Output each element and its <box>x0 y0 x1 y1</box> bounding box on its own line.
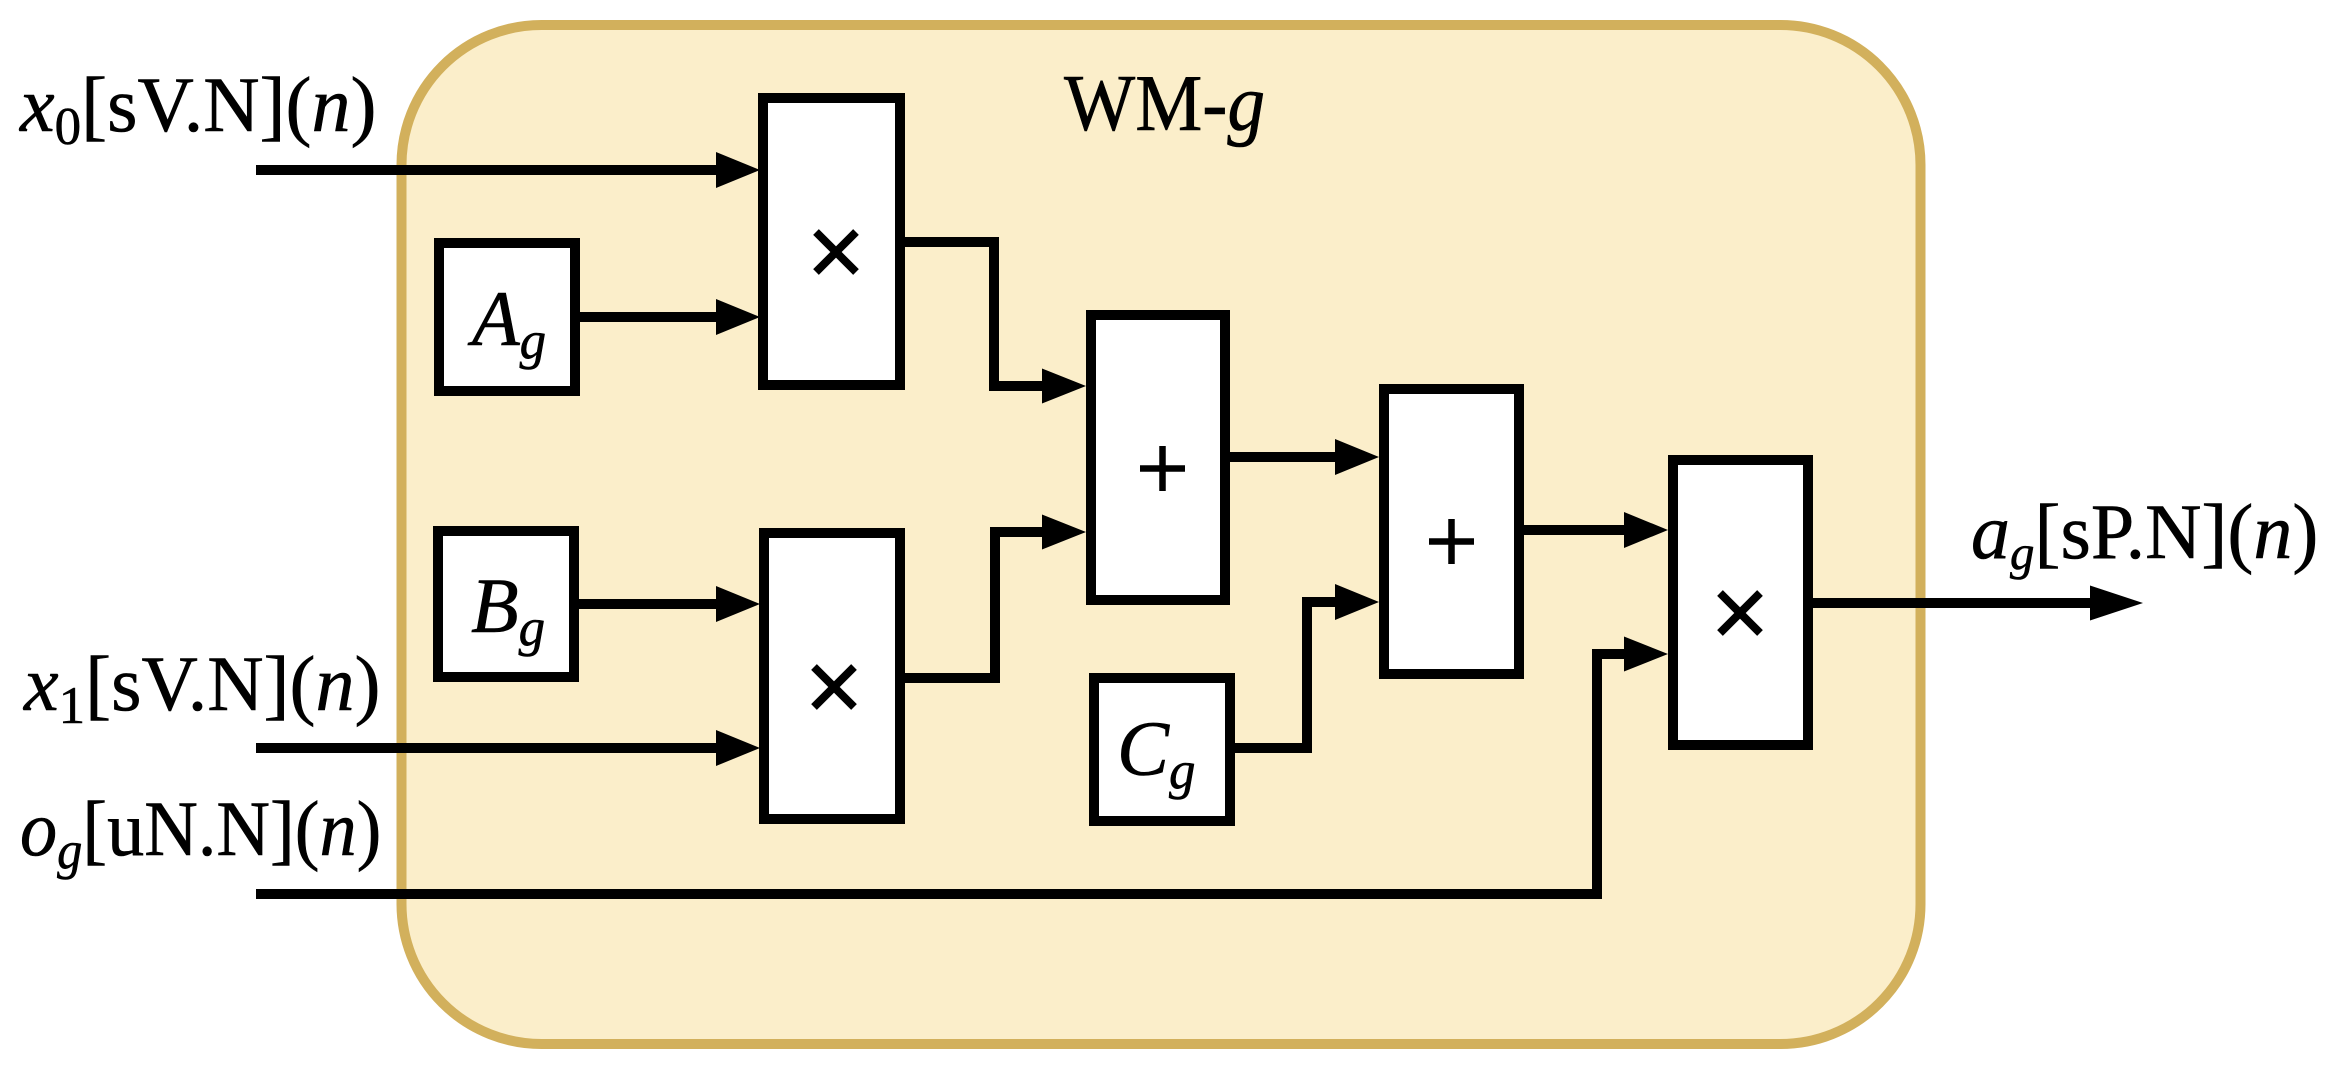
wire adder S1 to adder S2 <box>1230 452 1339 462</box>
svg-text:WM-g: WM-g <box>1064 59 1265 147</box>
wire x0 input <box>256 165 720 175</box>
coefficient B_g <box>438 531 574 677</box>
wire ag output <box>1813 598 2092 608</box>
coefficient C_g <box>1094 678 1230 821</box>
wire A_g to multiplier M1 <box>580 312 720 322</box>
wire adder S2 to multiplier M3 <box>1524 525 1628 535</box>
adder S1 <box>1091 315 1225 600</box>
wire multiplier M2 to adder S1 <box>905 532 1046 678</box>
coefficient A_g <box>439 243 575 391</box>
block WM-g boundary <box>402 25 1921 1044</box>
multiplier M2 <box>764 533 900 819</box>
wire multiplier M1 to adder S1 <box>905 242 1046 386</box>
adder S2 <box>1384 389 1519 674</box>
multiplier M1 <box>763 98 900 385</box>
wire og input <box>256 654 1628 894</box>
multiplier M3 <box>1673 460 1808 745</box>
wire B_g to multiplier M2 <box>579 599 720 609</box>
wire C_g to adder S2 <box>1235 602 1339 748</box>
wire x1 input <box>256 743 720 753</box>
